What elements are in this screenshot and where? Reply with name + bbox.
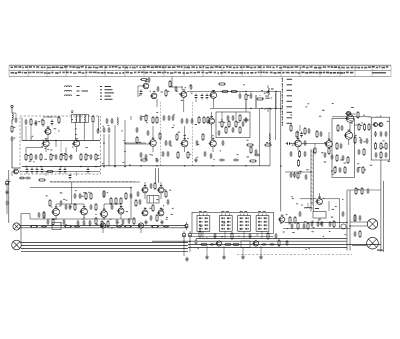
wire amp out rail [285,221,347,223]
resistor R11 [85,153,89,161]
resistor R55 [43,211,45,219]
resistor R23 [152,116,154,124]
capacitor C10 [41,168,44,174]
electrolytic E1 input [6,179,11,187]
resistor R21 [235,120,239,128]
wire jump over [157,77,183,108]
electrolytic E4 [189,231,192,239]
capacitor C117 [90,204,93,210]
resistor R37 [297,159,299,167]
wire stage2 verticals [104,116,131,167]
resistor R26 [203,116,205,124]
resistor R80 [250,146,252,154]
transistor T21 [99,209,107,218]
capacitor C61 [19,177,25,180]
capacitor C87 [97,128,100,134]
capacitor C102 [255,149,258,155]
capacitor C82 [317,221,320,227]
antenna terminal [11,105,13,113]
capacitor C3 [35,154,38,160]
capacitor C25 [242,121,245,127]
capacitor C9 [36,168,39,174]
transistor T14 [345,111,351,115]
capacitor C64 [38,212,41,218]
output box [371,117,389,160]
resistor R101 [95,217,97,225]
resistor R1 [11,125,15,133]
capacitor C60 [79,193,82,199]
capacitor C88 [69,174,72,180]
driver stage box [332,119,354,178]
resistor R53 [115,197,117,205]
capacitor C47 [304,151,307,157]
capacitor C5 [70,154,73,160]
resistor R5 [30,153,32,161]
transistor T25 [141,185,148,193]
resistor R77 [159,132,161,140]
resistor R18 [245,93,249,101]
capacitor C109 [358,149,361,155]
resistor R82 [225,126,227,134]
ground G5 [160,220,164,224]
resistor R40 [337,124,339,132]
resistor R30 [187,151,189,159]
resistor R67 [294,216,296,224]
capacitor C93 [239,93,242,99]
resistor R48 [385,142,387,150]
capacitor C128 [214,233,217,239]
transistor T20 [79,206,87,215]
resistor R68 [355,187,359,195]
capacitor C66 [83,220,86,226]
speaker jack SP1 [13,223,20,230]
ground G7 [205,255,209,259]
resistor R9 [65,153,67,161]
capacitor C30 [172,115,175,121]
resistor R3 [92,115,94,123]
ground G3 [194,158,198,162]
capacitor C45 [286,142,292,145]
resistor R38 [297,172,299,180]
transistor T7 [209,90,217,98]
transistor T1 [44,127,51,135]
resistor R110 [297,222,299,230]
capacitor C100 [218,130,221,136]
resistor R85 [316,130,318,138]
wire tuner upper left [22,118,31,141]
junction dots stage2 [103,142,126,167]
transistor T6 [180,90,187,98]
resistor R34 [296,131,298,139]
resistor R42 [347,156,349,164]
capacitor C103 [219,159,225,162]
capacitor C13 [87,168,90,174]
wire det vertical 2 [269,108,271,165]
wire right lower rail [285,171,311,173]
wire tuner下 link [46,172,77,177]
transistor T12 [293,138,301,147]
wire vert osc b [195,100,197,102]
bottom right label [377,250,383,251]
capacitor C75 [139,199,142,205]
capacitor C46 [290,151,293,157]
wire amp drops [207,246,261,255]
resistor R109 [267,232,269,240]
wire wafer drops [203,231,262,238]
resistor R66 [289,216,291,224]
vertical x131 feed [130,204,132,219]
capacitor C22 [175,86,178,92]
switch wafer S2b [219,211,232,231]
transistor T10 [180,138,188,147]
header table top rule [9,64,391,66]
wire osc rail [187,91,281,93]
capacitor C2 [51,120,54,126]
resistor R4 [25,153,29,161]
capacitor C108 [340,143,343,149]
wire lower rail [20,171,100,173]
capacitor C54 [360,138,363,144]
resistor R51 [103,190,105,198]
capacitor C112 [339,167,342,173]
legend coil row 3 [64,95,79,96]
resistor R75 [256,98,264,100]
connector legend list [281,77,292,126]
capacitor C86 [35,120,38,126]
capacitor C116 [60,200,63,206]
AGC line [210,107,281,109]
resistor R71 [58,116,60,124]
IF transformer L2 [71,111,80,123]
capacitor C57 [380,131,383,137]
capacitor C20 [140,90,143,96]
transistor T17 [372,123,377,127]
resistor R62 [152,204,154,212]
resistor R97 [95,203,97,211]
wire stage2 vertical left [98,116,100,131]
transistor T28 [157,208,164,216]
capacitor C107 [320,131,323,137]
resistor R72 [46,170,54,172]
switch wafer S2c [238,211,251,231]
resistor R94 [380,151,382,159]
capacitor C119 [130,193,133,199]
resistor R45 [368,123,370,131]
coil L7 out [304,203,311,209]
capacitor C56 [374,131,377,137]
capacitor C105 [232,127,235,133]
ground G1 [5,190,9,194]
transistor T3 [72,138,80,146]
resistor R49 [85,192,87,200]
capacitor C68 [116,219,119,225]
capacitor C115 [385,152,388,158]
right frame inner [347,190,381,251]
capacitor C136 [354,231,357,237]
capacitor C58 [385,131,388,137]
header row 2 right cell text [372,72,386,74]
capacitor C6 [90,154,93,160]
capacitor C71 [41,225,47,228]
capacitor C91 [190,84,193,90]
resistor R104 [165,190,167,198]
capacitor C124 [137,191,140,197]
capacitor C49 [293,172,296,178]
speaker bus line 3 [21,247,188,249]
capacitor C8 [31,168,34,174]
speaker bus line 1 [21,242,188,244]
wire bottom right extra [354,214,356,222]
transistor T8 [207,116,214,124]
transistor T4 [142,81,149,89]
bottom rail 1 [196,238,347,240]
resistor R33 [249,160,257,162]
transistor T18 [378,123,383,127]
capacitor C69 [122,219,125,225]
switch assembly outline [192,212,274,236]
transistor T26 [157,185,164,193]
resistor R65 [232,243,240,245]
resistor R86 [336,142,338,150]
header table bottom rule [9,76,391,78]
capacitor C62 [65,204,68,210]
capacitor C43 [245,117,248,123]
capacitor C18 [103,127,106,133]
bottom dashed rail [237,254,352,256]
label text cluster IF mid [139,112,249,160]
wire T1 connections [43,117,93,141]
capacitor C36 [140,152,143,158]
speaker bus line 4 [21,250,188,252]
wire IF input rail [138,86,143,97]
IF transformer L3 [80,115,88,123]
screen partition dashed 1 [160,102,162,166]
wire top speaker pair [20,226,186,228]
wire top feed [299,125,301,131]
capacitor C26 [243,119,249,122]
resistor R19 [221,120,225,128]
wire preamp extra [44,211,96,219]
screened cable run [311,149,313,212]
label text cluster IF top [139,84,272,101]
switch wafer S2a [197,211,210,231]
vertical feed left [20,214,22,243]
legend coil row 1 [64,86,79,87]
wire left margin vertical [8,170,10,223]
electrolytic E3 [183,231,186,239]
transistor T32 [278,215,285,223]
transistor T27 [141,208,148,216]
resistor R100 [52,218,54,226]
resistor R74 [218,83,226,85]
capacitor C41 [210,153,213,159]
wire top right [348,113,356,115]
capacitor C99 [196,140,199,146]
capacitor C94 [250,93,253,99]
wire stage2 branch [125,142,146,144]
bottom long bus a [188,244,381,246]
capacitor C83 [321,221,324,227]
transistor T5 [150,91,157,99]
resistor R106 [278,239,280,247]
capacitor C39 [167,151,170,157]
capacitor C34 [227,115,230,121]
resistor R54 [120,197,122,205]
capacitor C79 [269,243,275,246]
junction dots osc rail [213,91,277,93]
capacitor C53 [342,155,345,161]
resistor R17 [230,90,238,92]
capacitor C120 [47,219,50,225]
resistor R76 [136,136,138,144]
resistor R78 [176,133,178,141]
relay box K1 [147,196,159,204]
resistor R114 [359,230,361,238]
ferrite rod symbol [265,108,272,112]
speaker SP3 [367,219,377,229]
transistor T19 [51,206,59,215]
wire to SP4 [352,245,367,247]
wire right stage rail [302,144,326,147]
wire tuner top bus [22,140,100,142]
IF bottom bus [101,165,271,167]
resistor R63 [200,243,208,245]
junction dots IF bus [140,165,247,167]
capacitor C21 [157,86,160,92]
capacitor C15 [25,177,31,180]
preamp top rail [30,187,131,189]
transistor T16 [344,130,353,140]
resistor R64 [224,243,232,245]
label text cluster right amp [290,103,390,175]
wire preamp links [56,182,131,219]
resistor R102 [133,217,135,225]
capacitor C96 [147,130,150,136]
resistor R27 [207,116,209,124]
capacitor C14 [19,177,25,180]
transistor T9 [149,138,157,147]
capacitor C23 [195,94,198,100]
transistor T2 [42,138,50,146]
resistor R59 [64,226,72,228]
resistor R57 [107,220,109,228]
transistor T29 [215,241,221,246]
wire right verticals [291,131,329,151]
capacitor C78 [261,243,267,246]
capacitor C121 [63,219,66,225]
capacitor C31 [181,118,184,124]
wire osc verticals [184,92,276,113]
capacitor C111 [324,152,327,158]
capacitor C42 [254,154,260,157]
coil L1 antenna [12,113,13,125]
capacitor C19 [108,127,111,133]
legend coil row 2 [64,90,88,91]
resistor R39 [328,147,330,155]
resistor R103 [154,182,156,190]
resistor R79 [202,133,204,141]
resistor R44 [363,123,365,131]
resistor R70 [30,118,32,126]
coil L5 choke [268,85,274,99]
coil L6 det [269,133,270,140]
wire multivib links [145,182,161,210]
wire tuner stage links [26,141,77,153]
resistor R43 [358,123,362,131]
screen partition dashed 2 [192,102,194,166]
label text cluster multivib [149,189,173,219]
resistor R15 [165,89,169,97]
capacitor C27 [140,115,143,121]
resistor R107 [199,230,201,238]
small transistor bottom left [12,169,18,174]
capacitor C63 [69,204,72,210]
out bottom rail [283,227,350,229]
switch wafer S2d [256,211,269,231]
capacitor C135 [359,215,362,221]
transistor T24 [137,223,143,228]
wire speaker branch drops [61,222,141,233]
capacitor C35 [232,115,235,121]
resistor R60 [124,226,132,228]
transistor T15 [345,113,354,123]
wire det vertical 3 [255,95,257,108]
preamp dashed rail [50,180,135,182]
capacitor C84 [367,188,370,194]
resistor R91 [334,166,336,174]
wire left edge drop [6,187,8,214]
capacitor C24 [201,94,204,100]
capacitor C131 [291,223,294,229]
label text cluster bottom amp [198,219,347,250]
capacitor C80 [299,211,302,217]
resistor R20 [228,120,230,128]
wire ant branch [12,113,16,117]
capacitor C33 [191,118,194,124]
resistor R41 [336,154,338,162]
label text cluster audio [46,190,129,226]
resistor R88 [363,148,365,156]
wire elco drops [184,239,190,256]
ground G8 [222,255,226,259]
resistor R93 [362,166,364,174]
resistor R46 [374,142,376,150]
speaker SP4 [367,237,379,249]
wire out top rail [300,193,340,199]
capacitor C48 [290,172,293,178]
wire output links [332,117,371,145]
resistor R87 [354,136,356,144]
header text row 2 [11,72,354,74]
audio takeoff wire [11,172,13,177]
resistor R73 [169,80,171,88]
resistor R31 [246,144,254,146]
connector jack J1 [341,224,346,229]
capacitor C101 [222,140,225,146]
wire detector links [212,112,237,140]
capacitor C28 [163,115,166,121]
preamp bottom rail [30,218,135,220]
resistor R95 [49,199,51,207]
capacitor C89 [15,117,18,123]
resistor R29 [177,151,179,159]
wire det vertical 1 [259,108,261,165]
capacitor C125 [150,215,153,221]
wire AGC drop to switch [280,92,282,212]
capacitor C37 [145,154,148,160]
resistor R96 [74,203,76,211]
capacitor C104 [233,159,239,162]
